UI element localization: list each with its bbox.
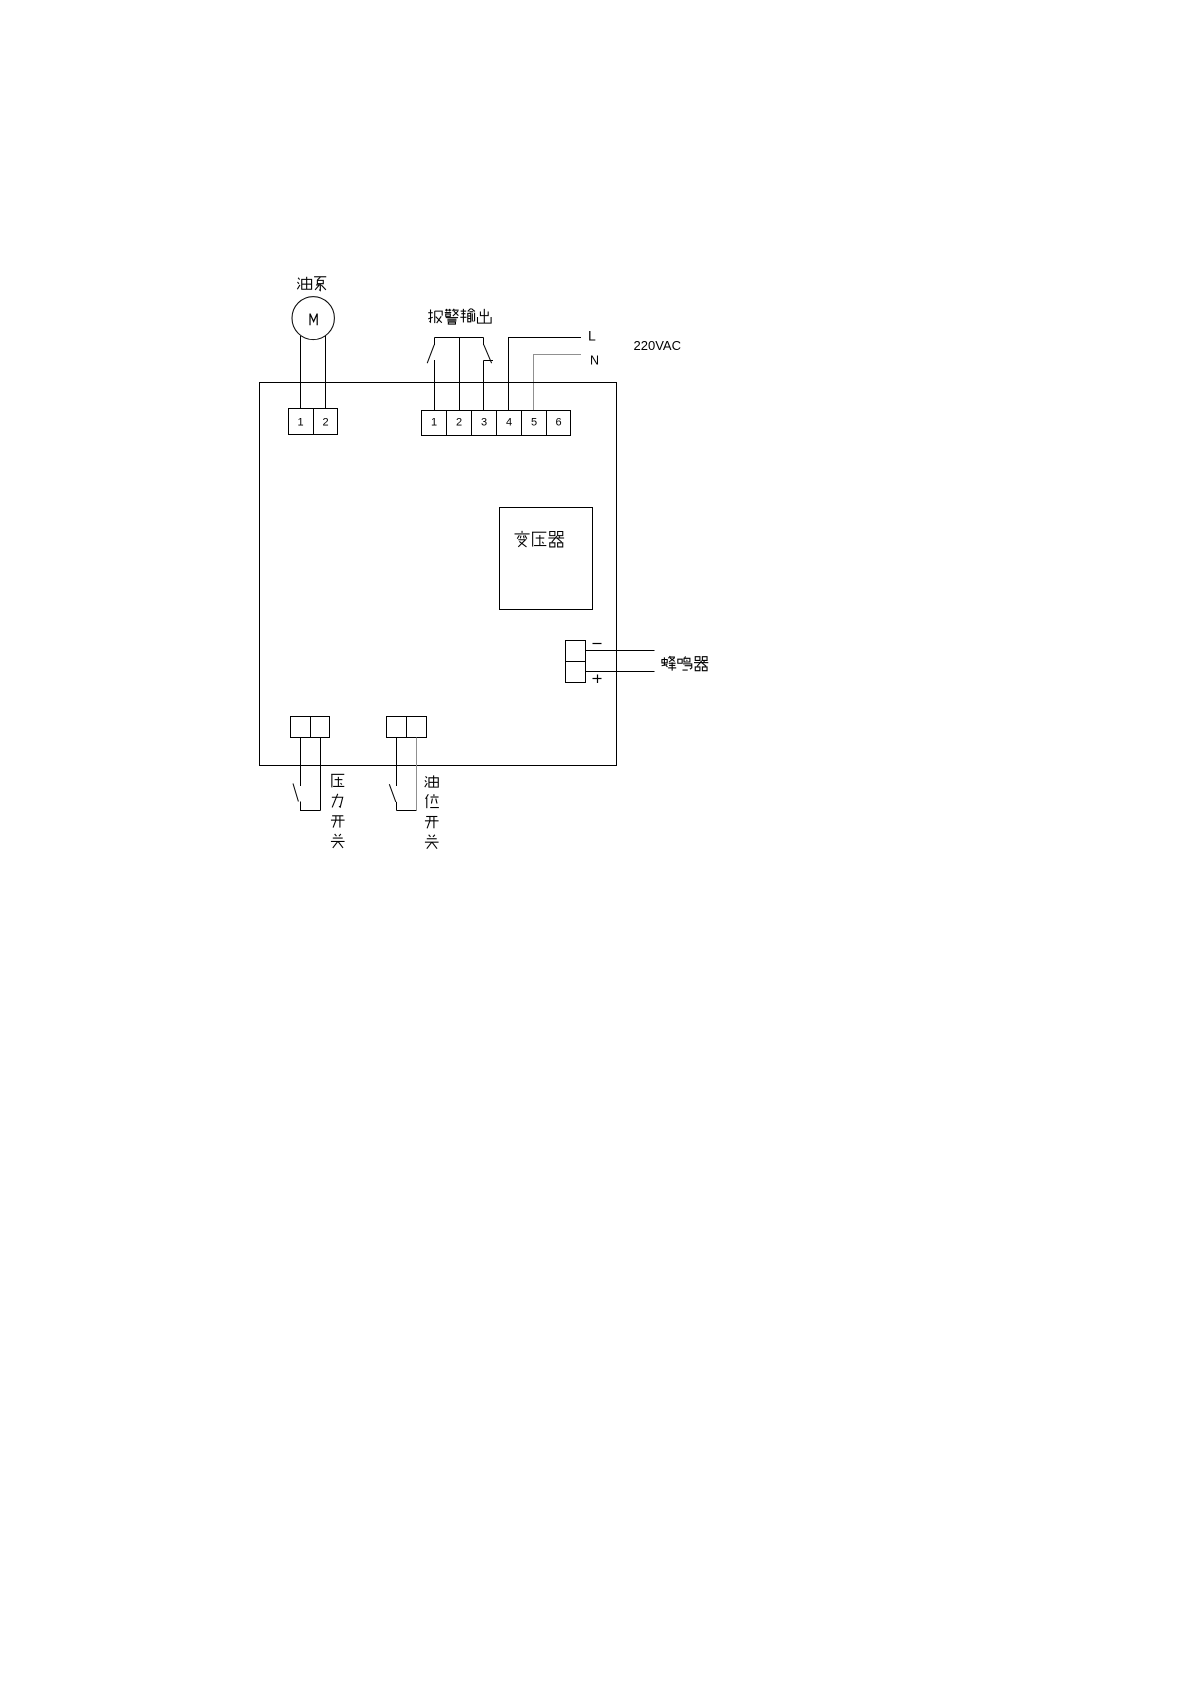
svg-text:L: L [588, 328, 596, 344]
wire pressure switch right [320, 738, 322, 811]
wire alarm common top bus [435, 337, 484, 339]
wire below blade [300, 802, 302, 812]
svg-text:1: 1 [297, 417, 303, 429]
terminal block TB4 (pressure switch) [291, 717, 330, 738]
svg-text:4: 4 [506, 417, 512, 429]
switch blade left (alarm contact 1) [427, 345, 434, 363]
wire motor pin2 to terminal 2 [325, 336, 327, 409]
terminal block TB1 (pump) [289, 409, 338, 435]
TB2 pin numbers 1-6 [431, 417, 562, 429]
wire L line to terminal 4 [509, 338, 582, 411]
polarity minus [593, 643, 602, 645]
buzzer terminal block TB3 [566, 641, 586, 683]
switch blade (pressure switch) [293, 784, 298, 802]
svg-text:1: 1 [431, 417, 437, 429]
switch blade right (alarm contact 2) [484, 345, 492, 363]
wire oil level switch left [396, 738, 398, 787]
main control board box [260, 383, 617, 766]
svg-text:N: N [590, 354, 599, 368]
svg-text:2: 2 [456, 417, 462, 429]
wire N line to terminal 5 [534, 355, 582, 411]
wire buzzer positive [586, 671, 655, 673]
wire oil level switch bottom [397, 810, 417, 812]
polarity plus [593, 675, 602, 684]
terminal block TB5 (oil level switch) [387, 717, 427, 738]
motor M letter [310, 314, 317, 326]
svg-text:220VAC: 220VAC [634, 338, 681, 353]
wire to terminal 3 [483, 361, 485, 411]
label 油位开关 (oil level switch, vertical) [425, 775, 439, 848]
svg-text:6: 6 [555, 417, 561, 429]
motor M1 circle [292, 297, 334, 340]
transformer T1 box [500, 508, 593, 610]
wire to terminal 1 [434, 360, 436, 411]
wire right stub [483, 338, 485, 346]
label 油泵 (oil pump) [297, 277, 326, 291]
wire below blade [396, 802, 398, 811]
wire oil level switch right [416, 738, 418, 811]
terminal block TB2 (1-6) [422, 411, 571, 436]
label 压力开关 (pressure switch, vertical) [331, 774, 345, 848]
wire left stub [434, 338, 436, 346]
switch blade (oil level switch) [389, 784, 396, 802]
contact tick right [484, 360, 494, 362]
wire to terminal 2 [459, 338, 461, 411]
svg-text:5: 5 [531, 417, 537, 429]
label 变压器 (transformer) [515, 531, 565, 547]
wire motor pin1 to terminal 1 [300, 336, 302, 409]
svg-text:3: 3 [481, 417, 487, 429]
svg-text:2: 2 [322, 417, 328, 429]
label 蜂鸣器 (buzzer) [662, 656, 709, 671]
wire pressure switch left [300, 738, 302, 787]
label 报警输出 (alarm output) [428, 309, 491, 325]
wire pressure switch bottom [301, 810, 321, 812]
wire buzzer negative [586, 650, 655, 652]
